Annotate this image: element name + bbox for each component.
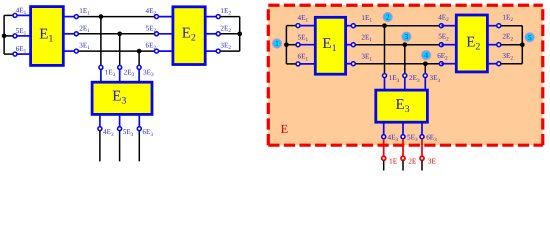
network box E3 [92,82,152,114]
terminal 1E2 of E [497,13,514,27]
svg-text:2E2: 2E2 [220,24,231,34]
wire: red lead 5E3' to port 2E [402,139,404,158]
port terminal 3E [420,156,437,165]
wire: stub terminal 5E2 to box E2 [157,33,173,35]
terminal 6E2 label of E [437,52,448,62]
wire: red lead 4E3' to port 1E [383,139,385,158]
wire: stub terminal 3E3' to box E3' [424,76,426,91]
svg-text:4E3: 4E3 [103,128,114,138]
terminal 5E2 label of E [438,33,449,43]
wire: lead below port 3E [421,161,423,171]
svg-text:1E: 1E [389,156,398,165]
junction on right bus [237,31,242,36]
network box E1 [31,7,64,66]
svg-text:1E1: 1E1 [79,7,90,17]
network box E1 of E [315,17,345,74]
terminal 3E1 [74,42,90,54]
terminal 2E1 [74,24,90,36]
wire: stub terminal 3E3 to box E3 [138,67,140,82]
node 3 [402,32,411,41]
junction rail2 of E [402,42,407,47]
network box E2 of E [456,15,487,72]
wire: stub terminal 6E2 to box E2 [157,50,173,52]
svg-text:3: 3 [405,32,409,41]
wire: bus to terminal 6E1 [4,53,15,55]
terminal 3E1 of E [351,53,372,66]
wire: rail3 down to 3E3' [424,64,426,73]
wire: bus to terminal 4E1' [286,25,298,27]
terminal 2E3 of E [403,74,420,84]
wire: lead down from 4E3 [99,131,101,161]
wire: stub box E2' to terminal 2E2' [487,44,499,46]
wire: bus to terminal 6E1' [286,63,298,65]
terminal 2E2 of E [497,33,514,47]
dashed boundary of network E: fill [268,5,543,145]
wire: stub terminal 4E2' to box E2' [441,25,456,27]
wire: stub terminal 1E3 to box E3 [100,67,102,82]
wire: stub box E3 to terminal 5E3 [119,115,121,129]
svg-text:5: 5 [528,33,532,42]
svg-text:1E2: 1E2 [220,7,231,17]
terminal 4E1 [13,6,27,17]
wire: rail2 down to terminal 2E3 [119,34,121,65]
wire: stub terminal 4E1' to box E1' [298,25,316,27]
port terminal 1E [382,156,398,165]
svg-text:2E: 2E [408,157,417,166]
network box E3 of E [376,90,428,122]
node 4 [422,51,431,60]
svg-text:2: 2 [386,13,390,22]
svg-text:1: 1 [275,39,279,48]
wire: rail1 down to terminal 1E3 [100,17,102,65]
terminal 1E1 [74,7,90,19]
wire: stub box E2' to terminal 1E2' [487,25,499,27]
wire: rail2 down to 2E3' [404,45,406,73]
svg-text:4: 4 [424,51,428,60]
terminal 4E2 label of E [438,13,449,23]
wire: stub terminal 1E3' to box E3' [384,76,386,91]
dashed boundary of network E: left edge [267,5,270,145]
wire: 1E2' to right bus of E [501,25,522,27]
terminal 3E3 of E [423,74,440,84]
terminal 1E1 of E [351,14,372,28]
junction on left bus of E [284,42,289,47]
terminal 2E1 of E [351,33,372,46]
wire: 2E2' to right bus of E [501,44,522,46]
terminal 6E2 of E [439,62,443,66]
wire: left bus vertical of E1 [3,15,5,54]
wire: rail 2 between E1 and E2 [79,33,155,35]
wire: stub box E1 to terminal 3E1 [63,50,76,52]
terminal 4E3 of E [382,134,399,144]
svg-text:5E3: 5E3 [123,128,134,138]
wire: stub box E3' to terminal 4E3' [383,122,385,137]
terminal 5E2 label [146,24,157,34]
wire: bus to terminal 5E1 [4,35,15,37]
wire: stub box E3' to terminal 6E3' [421,122,423,137]
junction rail1 of E [382,23,387,28]
wire: lead down from 5E3 [119,131,121,161]
wire: rail 1 between E1 and E2 [79,16,155,18]
terminal 2E3 [118,65,135,78]
terminal 4E3 [98,127,114,138]
wire: 3E2 to right bus [221,50,240,52]
terminal 4E2 [155,15,159,19]
wire: 2E2 to right bus [221,33,240,35]
wire: stub box E2' to terminal 3E2' [487,63,499,65]
svg-text:3E3: 3E3 [143,69,154,79]
svg-text:2E1: 2E1 [79,24,90,34]
terminal 1E3 [99,65,116,78]
junction rail2 to 2E3 [117,31,122,36]
label E of composite network [281,122,289,136]
svg-text:1E3: 1E3 [105,69,116,79]
wire: rail1 down to 1E3' [384,26,386,73]
terminal 5E2 of E [439,43,443,47]
wire: rail 3 of E [356,63,439,65]
wire: 1E2 to right bus [221,16,240,18]
wire: right bus vertical of E2 [239,17,241,52]
node 5 [525,33,534,42]
junction rail3 of E [423,61,428,66]
dashed boundary of network E: top edge [268,4,543,7]
terminal 6E3 of E [420,134,437,144]
wire: stub box E1' to terminal 3E1' [345,63,353,65]
wire: stub box E2 to terminal 1E2 [205,16,218,18]
port terminal 2E [401,156,417,165]
terminal 5E2 [155,32,159,36]
terminal 4E2 label [146,7,157,17]
terminal 5E3 [118,127,134,138]
junction rail3 to 3E3 [137,49,142,54]
wire: rail 3 between E1 and E2 [79,50,155,52]
wire: rail 1 of E [356,25,439,27]
wire: stub terminal 4E1 to box E1 [15,14,31,16]
terminal 6E2 [155,49,159,53]
wire: stub terminal 6E1' to box E1' [298,63,316,65]
dashed boundary of network E: bottom edge [268,144,543,147]
junction on right bus of E [520,42,525,47]
wire: 3E2' to right bus of E [501,63,522,65]
wire: stub box E2 to terminal 3E2 [205,50,218,52]
terminal 5E1 [13,27,27,38]
junction rail1 to 1E3 [99,14,104,19]
junction on left bus [2,34,7,39]
wire: stub box E3 to terminal 6E3 [138,115,140,129]
wire: stub box E1' to terminal 2E1' [345,44,353,46]
terminal 6E1 of E [296,53,308,66]
wire: stub box E1 to terminal 2E1 [63,33,76,35]
wire: stub terminal 2E3 to box E3 [119,67,121,82]
network box E2 [173,7,205,65]
wire: rail3 down to terminal 3E3 [138,51,140,65]
terminal 3E3 [137,65,154,78]
wire: stub box E1' to terminal 1E1' [345,25,353,27]
wire: left bus vertical of E1' [285,26,287,64]
wire: stub box E2 to terminal 2E2 [205,33,218,35]
terminal 5E1 of E [296,33,308,46]
wire: stub terminal 6E1 to box E1 [15,53,31,55]
node 2 [383,12,392,21]
terminal 3E2 [216,42,231,54]
terminal 4E1 of E [296,14,308,28]
dashed boundary of network E: right edge [541,5,544,145]
wire: bus to terminal 5E1' [286,44,298,46]
wire: stub terminal 5E2' to box E2' [441,44,456,46]
wire: stub box E1 to terminal 1E1 [63,16,76,18]
terminal 2E2 [216,24,231,36]
wire: stub box E3' to terminal 5E3' [402,122,404,137]
terminal 6E1 [13,45,27,56]
wire: stub terminal 4E2 to box E2 [157,16,173,18]
svg-text:3E1: 3E1 [79,42,90,52]
svg-text:E: E [281,122,289,136]
terminal 6E2 label [146,42,157,52]
wire: bus to terminal 4E1 [4,14,15,16]
wire: lead down from 6E3 [138,131,140,161]
node 1 [272,39,281,48]
terminal 5E3 of E [401,134,418,144]
svg-text:6E3: 6E3 [142,128,153,138]
wire: rail 2 of E [356,44,439,46]
terminal 1E2 [216,7,231,19]
terminal 1E3 of E [383,74,400,84]
wire: stub terminal 6E2' to box E2' [441,63,456,65]
terminal 4E2 of E [439,24,443,28]
svg-text:2E3: 2E3 [124,69,135,79]
svg-text:3E2: 3E2 [220,42,231,52]
wire: red lead 6E3' to port 3E [421,139,423,158]
terminal 3E2 of E [497,52,514,66]
wire: stub terminal 2E3' to box E3' [404,76,406,91]
wire: lead below port 1E [383,161,385,171]
terminal 6E3 [137,127,153,138]
wire: lead below port 2E [402,161,404,171]
wire: right bus vertical of E [521,26,523,64]
svg-text:3E: 3E [428,157,437,166]
wire: stub terminal 5E1' to box E1' [298,44,316,46]
wire: stub box E3 to terminal 4E3 [99,115,101,129]
wire: stub terminal 5E1 to box E1 [15,35,31,37]
